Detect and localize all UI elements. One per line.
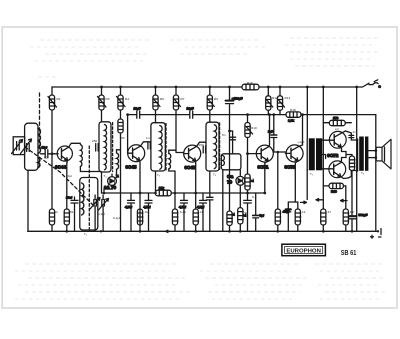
svg-text:4,7nf: 4,7nf [125, 205, 132, 209]
svg-text:1k: 1k [302, 210, 306, 214]
wire: riser x=155.5 rail to T2 [155, 87, 157, 123]
resistor R7 (emitter Q2, x=140) [137, 209, 143, 225]
wire: riser x=176 [176, 87, 184, 153]
svg-text:0C44: 0C44 [55, 165, 66, 170]
svg-text:a b: a b [335, 127, 339, 131]
wire: antenna ground x=31.3 [27, 170, 29, 231]
svg-text:Oa: Oa [227, 174, 234, 179]
svg-text:50: 50 [121, 136, 125, 140]
svg-text:R12: R12 [272, 96, 278, 100]
svg-text:15k: 15k [282, 210, 287, 214]
dashed gang link (vertical) [39, 93, 41, 150]
resistor R17a (x=277.8 bias) [275, 152, 281, 231]
svg-text:0,1μf: 0,1μf [113, 216, 120, 220]
oscillator feedback winding L2 [80, 145, 101, 172]
svg-text:+1µF: +1µF [298, 140, 305, 144]
svg-text:1,5k: 1,5k [288, 119, 294, 123]
resistor R10 (x=176) [173, 95, 180, 110]
ferrite antenna L1 [25, 123, 41, 170]
svg-text:5k: 5k [245, 211, 249, 215]
potentiometer P2 (x=247.5 mid) [245, 174, 254, 190]
svg-text:1k: 1k [145, 210, 149, 214]
wire: riser x=209.8 rail to T3 [209, 87, 211, 122]
IF transformer T1 [96, 122, 121, 193]
svg-text:1k: 1k [200, 210, 204, 214]
svg-text:2µF: 2µF [268, 130, 274, 134]
resistor R21 (x=352) [349, 156, 355, 171]
resistor R13 (x=268.3) [266, 96, 273, 111]
resistor R1 (top, x=52) [48, 95, 57, 110]
capacitor C20 2uF (coupling to Q5) [268, 115, 285, 152]
svg-text:0C45: 0C45 [126, 165, 137, 170]
svg-text:0C71: 0C71 [285, 165, 296, 170]
resistor R9 (x=155.5) [153, 95, 160, 110]
output transformer T5 [358, 137, 369, 172]
top supply rail [52, 86, 356, 88]
capacitor C18 (x=247.5 bottom) [244, 200, 252, 203]
svg-text:C1: C1 [44, 156, 48, 160]
resistor R24 (x=345.8) [343, 186, 349, 231]
tiny value labels (illegible in scan) [44, 81, 365, 236]
wire: riser x=120.5 [120, 87, 122, 231]
capacitor C19 5uF electrolytic [253, 193, 264, 231]
svg-text:6,8k: 6,8k [180, 210, 186, 214]
svg-text:R20: R20 [331, 189, 337, 193]
svg-text:5n: 5n [222, 133, 226, 137]
transistor Q4 OC71 (AF preamp) [256, 115, 273, 193]
transistor Q6 OC72 (output, top) [329, 131, 348, 152]
resistor R12 (x=209.8) [207, 95, 214, 110]
svg-text:10nf: 10nf [66, 196, 72, 200]
switch S1 (on-off at rail right end) [356, 80, 381, 88]
wire: Q7 collector to output transformer [348, 171, 358, 179]
T3 secondary (to detector) [221, 131, 241, 231]
svg-text:0C72: 0C72 [327, 153, 338, 158]
wire: speaker leads [368, 151, 376, 158]
wire: riser x=229.5 full height [229, 87, 231, 231]
svg-text:EUROPHON: EUROPHON [286, 248, 321, 254]
svg-text:4,7nf: 4,7nf [144, 205, 151, 209]
capacitor C15 10uF (coupling, x=191) [187, 107, 194, 119]
svg-text:0,1μf: 0,1μf [98, 212, 105, 216]
wire: left riser x=52 [51, 87, 53, 231]
IF transformer T3 [203, 122, 219, 231]
resistor R15 + pot chain x=247.5 [247, 115, 249, 232]
resistor R23 (bottom bias box) [323, 183, 346, 193]
wire: Q6 collector to output transformer [348, 132, 358, 140]
svg-text:T₁: T₁ [84, 232, 87, 236]
svg-text:0C71: 0C71 [258, 165, 269, 170]
oscillator coil L3 (box) [80, 146, 98, 230]
trimmer capacitor C6 [99, 195, 109, 231]
capacitor C10 4.7nF (x=184) [179, 193, 188, 231]
resistor R4 (x=101.5) [98, 95, 107, 110]
svg-text:1n: 1n [146, 136, 150, 140]
svg-text:47pf: 47pf [41, 146, 47, 150]
wire: riser x=280 [279, 87, 281, 115]
capacitor C22 (tiny, at Q6 collector) [349, 135, 354, 137]
resistor R6 (x=120.5 lower) [118, 119, 123, 133]
svg-text:4,7µf: 4,7µf [197, 205, 204, 209]
connection arrows a/b [166, 199, 348, 233]
svg-text:4,7nf: 4,7nf [179, 205, 186, 209]
potentiometer P1 volume (x=240.3) [238, 208, 246, 232]
svg-text:R3: R3 [106, 97, 110, 101]
transistor Q7 OC72 (output, bottom) [329, 158, 348, 179]
svg-text:79: 79 [227, 180, 233, 185]
wire: right vertical (battery line) [375, 115, 377, 232]
svg-text:0C45: 0C45 [185, 165, 196, 170]
driver transformer T4 [307, 87, 329, 200]
resistor R3 (emitter Q1) [64, 209, 69, 225]
capacitor C23 500uF electrolytic [349, 171, 367, 232]
diode D1 OA70 [104, 174, 119, 193]
transistor Q5 OC71 (driver) [285, 115, 303, 209]
svg-text:R18: R18 [290, 108, 296, 112]
IF transformer T2 [148, 123, 176, 193]
svg-text:R1: R1 [57, 97, 61, 101]
resistor R20 (top bias box) [323, 116, 351, 126]
svg-text:R10: R10 [251, 126, 257, 130]
dashed gang link (diagonal) [25, 147, 95, 207]
wire: riser x=323.3 full [322, 87, 324, 231]
wire: riser x=268.3 [267, 87, 269, 115]
capacitor C9 10uF (coupling, x=138) [134, 107, 141, 119]
svg-text:4n: 4n [353, 130, 357, 134]
svg-text:10µF: 10µF [187, 107, 194, 111]
transistor Q3 OC45 (2nd IF) [184, 142, 206, 231]
resistor R19 (emitter Q5) [295, 209, 301, 231]
resistor R15 (x=247.5 top) [245, 123, 253, 138]
wire: antenna tap to base [41, 153, 59, 155]
resistor R16 (series in rail) [242, 84, 259, 90]
svg-text:10µl: 10µl [66, 174, 72, 178]
capacitor C11 4.7nF (x=200.5) [197, 193, 207, 231]
svg-text:R14: R14 [285, 96, 291, 100]
svg-text:R7: R7 [181, 97, 185, 101]
tuning capacitor C1 (box) [12, 137, 25, 155]
resistor R8 (in AGC line) [155, 186, 171, 196]
transistor Q2 OC45 (1st IF) [128, 142, 151, 232]
capacitor C7 4.7nF (x=131) [125, 193, 135, 231]
capacitor C21 10uF electrolytic (emitter bypass) [283, 202, 295, 231]
svg-text:1k: 1k [55, 210, 59, 214]
svg-text:0A 70: 0A 70 [104, 185, 117, 190]
resistor R14 (x=280) [277, 96, 284, 111]
capacitor C4 10nF (oscillator) [66, 196, 78, 232]
svg-text:R16: R16 [247, 81, 253, 85]
svg-text:150: 150 [333, 116, 338, 120]
resistor R5 (x=120.5 upper) [117, 95, 126, 110]
bottom ground rail [28, 230, 377, 232]
svg-text:12k: 12k [159, 186, 164, 190]
capacitor C8 4.7nF (x=147) [144, 193, 153, 231]
svg-text:R2: R2 [350, 210, 354, 214]
AGC line (mid horizontal) [102, 192, 265, 194]
resistor R13b (x=229.5 bottom) [227, 211, 235, 226]
capacitor C3 47pF [41, 146, 48, 158]
svg-text:250: 250 [92, 139, 97, 143]
resistor R18 (in audio line) [286, 112, 301, 123]
wire: Q2 base riser from audio line [127, 115, 129, 154]
resistor R7b (x=175 bottom) [172, 171, 178, 231]
diode D2 OA79 (detector) [236, 176, 245, 207]
transistor Q1 OC44 (converter) [57, 143, 80, 163]
speaker LS [376, 139, 391, 169]
svg-text:250: 250 [199, 143, 204, 147]
print-through ghosting (decorative) [40, 38, 380, 40]
svg-text:47: 47 [328, 210, 332, 214]
svg-text:5µf: 5µf [260, 214, 265, 218]
capacitor C14 100uF (rail bypass) [226, 96, 243, 103]
battery terminal marks [371, 229, 382, 239]
svg-text:R9: R9 [214, 97, 218, 101]
svg-text:SB 61: SB 61 [341, 248, 357, 257]
svg-text:R4: R4 [125, 97, 129, 101]
wire: emitter drop Q1 x=66.8 [66, 163, 68, 231]
wire: emitters join to R21 [346, 152, 352, 158]
svg-text:10µF: 10µF [134, 107, 141, 111]
resistor R22 (x=323.3 bottom) [321, 209, 326, 225]
trimmer capacitor C2 (on antenna coil) [21, 139, 32, 154]
svg-text:500µF: 500µF [359, 213, 368, 217]
svg-text:0,1: 0,1 [252, 195, 257, 199]
wire: riser x=101.5 rail to T1 [101, 87, 103, 122]
wire: switch line x=356.7 down [356, 87, 358, 231]
svg-text:≈100μF: ≈100μF [232, 96, 243, 100]
logo EUROPHON box [282, 244, 326, 256]
svg-text:R6: R6 [160, 97, 164, 101]
resistor R11b (emitter Q3) [193, 209, 199, 225]
wire: base Q4 from pot chain [248, 153, 257, 155]
resistor R2 (bottom, x=52) [49, 209, 54, 225]
audio/feedback line y=114.6 [128, 114, 376, 116]
svg-text:8k: 8k [70, 210, 74, 214]
trimmer capacitor C5 [90, 195, 100, 231]
